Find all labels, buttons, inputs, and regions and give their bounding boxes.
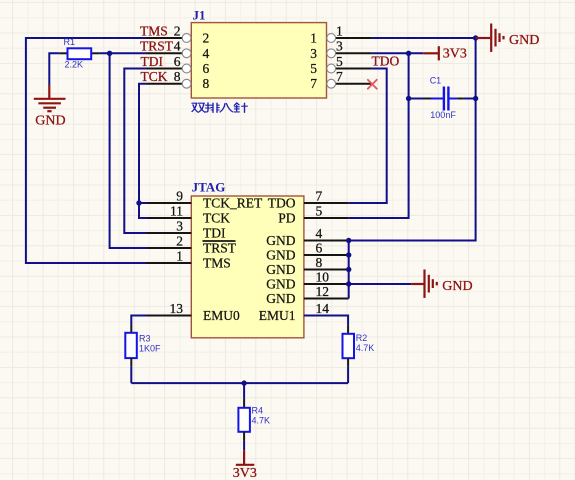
svg-text:R2: R2 [356, 333, 368, 343]
svg-text:4: 4 [316, 226, 323, 241]
wire R1 to ground [49, 53, 59, 85]
junction R4 node [241, 380, 246, 385]
junction GND/pin1 [473, 35, 478, 40]
svg-text:8: 8 [203, 76, 210, 91]
junction C1 left [406, 96, 411, 101]
svg-text:GND: GND [442, 279, 472, 294]
resistor R4 [238, 399, 270, 441]
wire TDO net [349, 69, 387, 204]
J1 comment 双排八针 [192, 103, 247, 113]
wire to mid GND symbol [349, 283, 412, 285]
svg-text:8: 8 [174, 69, 181, 84]
power symbol 3V3 top [423, 46, 439, 60]
wire 3V3 vertical to JTAG PD [349, 53, 409, 218]
svg-text:J1: J1 [193, 8, 206, 23]
svg-text:3: 3 [310, 46, 317, 61]
J1 pin pad circles [182, 34, 335, 89]
wire TDI net [124, 69, 146, 234]
svg-text:5: 5 [336, 54, 343, 69]
svg-text:TDI: TDI [141, 54, 164, 69]
junction gnd bus pin4 [346, 238, 351, 243]
svg-text:7: 7 [310, 76, 317, 91]
power ground symbol top right [476, 24, 504, 52]
wire TCK net [139, 84, 147, 218]
svg-text:2.2K: 2.2K [65, 60, 84, 70]
svg-text:14: 14 [316, 301, 330, 316]
J1 right pin stubs (pins 1,3,5,7) [336, 38, 372, 84]
svg-text:7: 7 [336, 69, 343, 84]
svg-text:12: 12 [316, 284, 330, 299]
junction gnd bus pin6 [346, 252, 351, 257]
svg-text:6: 6 [174, 54, 181, 69]
wire EMU0 to R3 [131, 316, 146, 326]
svg-text:1: 1 [310, 31, 317, 46]
svg-text:1: 1 [336, 23, 343, 38]
wire GND vertical down to JTAG gnd bus [349, 38, 476, 241]
resistor R2 [343, 326, 375, 367]
wire R2 down to node [347, 366, 349, 383]
TRST overbar [203, 240, 236, 242]
J1 left pin stubs (pins 2,4,6,8) [147, 38, 183, 84]
wire GND net top right [372, 37, 476, 39]
svg-text:100nF: 100nF [430, 110, 456, 120]
svg-text:GND: GND [35, 114, 65, 129]
power symbol 3V3 bottom [236, 450, 255, 465]
wire node to R4 [243, 383, 245, 399]
svg-text:2: 2 [176, 233, 183, 248]
wire TMS net [26, 38, 147, 263]
svg-text:GND: GND [266, 277, 295, 292]
svg-text:5: 5 [310, 61, 317, 76]
JTAG pin numbers [170, 188, 330, 315]
svg-text:GND: GND [266, 248, 295, 263]
svg-text:4.7K: 4.7K [252, 415, 271, 425]
power ground symbol mid right [411, 270, 437, 298]
svg-text:R4: R4 [252, 405, 264, 415]
J1 pin numbers inside body [203, 31, 318, 92]
svg-text:11: 11 [170, 203, 183, 218]
svg-text:10: 10 [316, 269, 330, 284]
wire R4 down [243, 441, 245, 450]
svg-text:6: 6 [203, 61, 210, 76]
svg-text:PD: PD [278, 211, 296, 226]
svg-text:5: 5 [316, 203, 323, 218]
svg-text:TRST: TRST [203, 241, 237, 256]
ground symbol (earth) left [34, 85, 66, 111]
junction TCK/TCK_RET [136, 200, 141, 205]
junction gnd bus pin10 [346, 281, 351, 286]
junction C1 right [473, 96, 478, 101]
svg-text:3: 3 [336, 39, 343, 54]
svg-text:TDI: TDI [203, 226, 226, 241]
svg-text:3V3: 3V3 [443, 47, 467, 62]
svg-text:7: 7 [316, 188, 323, 203]
JTAG component body [191, 196, 304, 338]
svg-text:4: 4 [203, 46, 210, 61]
svg-text:TCK: TCK [141, 69, 168, 84]
capacitor C1 [409, 75, 476, 120]
wire R3 down to node [130, 366, 132, 383]
svg-text:TDO: TDO [372, 54, 400, 69]
svg-text:6: 6 [316, 240, 323, 255]
svg-text:1: 1 [176, 248, 183, 263]
junction TRST/R1 [107, 51, 112, 56]
JTAG left pin stubs [147, 203, 192, 316]
wire GND bus vertical [348, 241, 350, 299]
J1 outside pin numbers [174, 23, 343, 84]
svg-text:TMS: TMS [140, 23, 168, 38]
svg-text:EMU0: EMU0 [203, 308, 240, 323]
svg-text:R3: R3 [139, 334, 151, 344]
JTAG pin names [203, 196, 296, 324]
wire bottom horizontal [131, 382, 348, 384]
svg-text:9: 9 [176, 188, 183, 203]
svg-text:TCK_RET: TCK_RET [203, 196, 263, 211]
resistor R3 [125, 325, 161, 366]
svg-text:TMS: TMS [203, 256, 231, 271]
no connect X on J1 pin7 [367, 79, 377, 89]
svg-text:13: 13 [170, 301, 184, 316]
resistor R1 [60, 37, 100, 70]
svg-text:GND: GND [266, 233, 295, 248]
svg-text:EMU1: EMU1 [259, 308, 296, 323]
svg-text:JTAG: JTAG [192, 180, 226, 195]
svg-text:4.7K: 4.7K [356, 343, 375, 353]
svg-text:GND: GND [266, 262, 295, 277]
svg-text:R1: R1 [64, 37, 76, 47]
wire TRST vertical to JTAG pin2 [110, 53, 147, 248]
wire EMU1 to R2 [304, 316, 348, 326]
wire 3V3 net pin3 row [372, 52, 423, 54]
junction gnd bus pin8 [346, 267, 351, 272]
svg-text:C1: C1 [430, 75, 442, 85]
svg-text:2: 2 [174, 23, 181, 38]
wire TCK_RET branch [139, 202, 147, 204]
svg-text:TCK: TCK [203, 211, 230, 226]
svg-text:4: 4 [174, 39, 181, 54]
svg-text:3V3: 3V3 [233, 466, 257, 480]
svg-text:2: 2 [203, 31, 210, 46]
svg-text:GND: GND [266, 291, 295, 306]
svg-text:8: 8 [316, 255, 323, 270]
svg-text:3: 3 [176, 218, 183, 233]
wire TRST row to R1 [99, 52, 146, 54]
svg-text:GND: GND [509, 33, 539, 48]
junction 3V3 node [406, 51, 411, 56]
svg-text:TRST: TRST [140, 39, 174, 54]
JTAG right pin stubs [304, 203, 349, 316]
svg-text:1K0F: 1K0F [139, 344, 161, 354]
connector J1 body [191, 23, 326, 98]
svg-text:TDO: TDO [268, 196, 296, 211]
